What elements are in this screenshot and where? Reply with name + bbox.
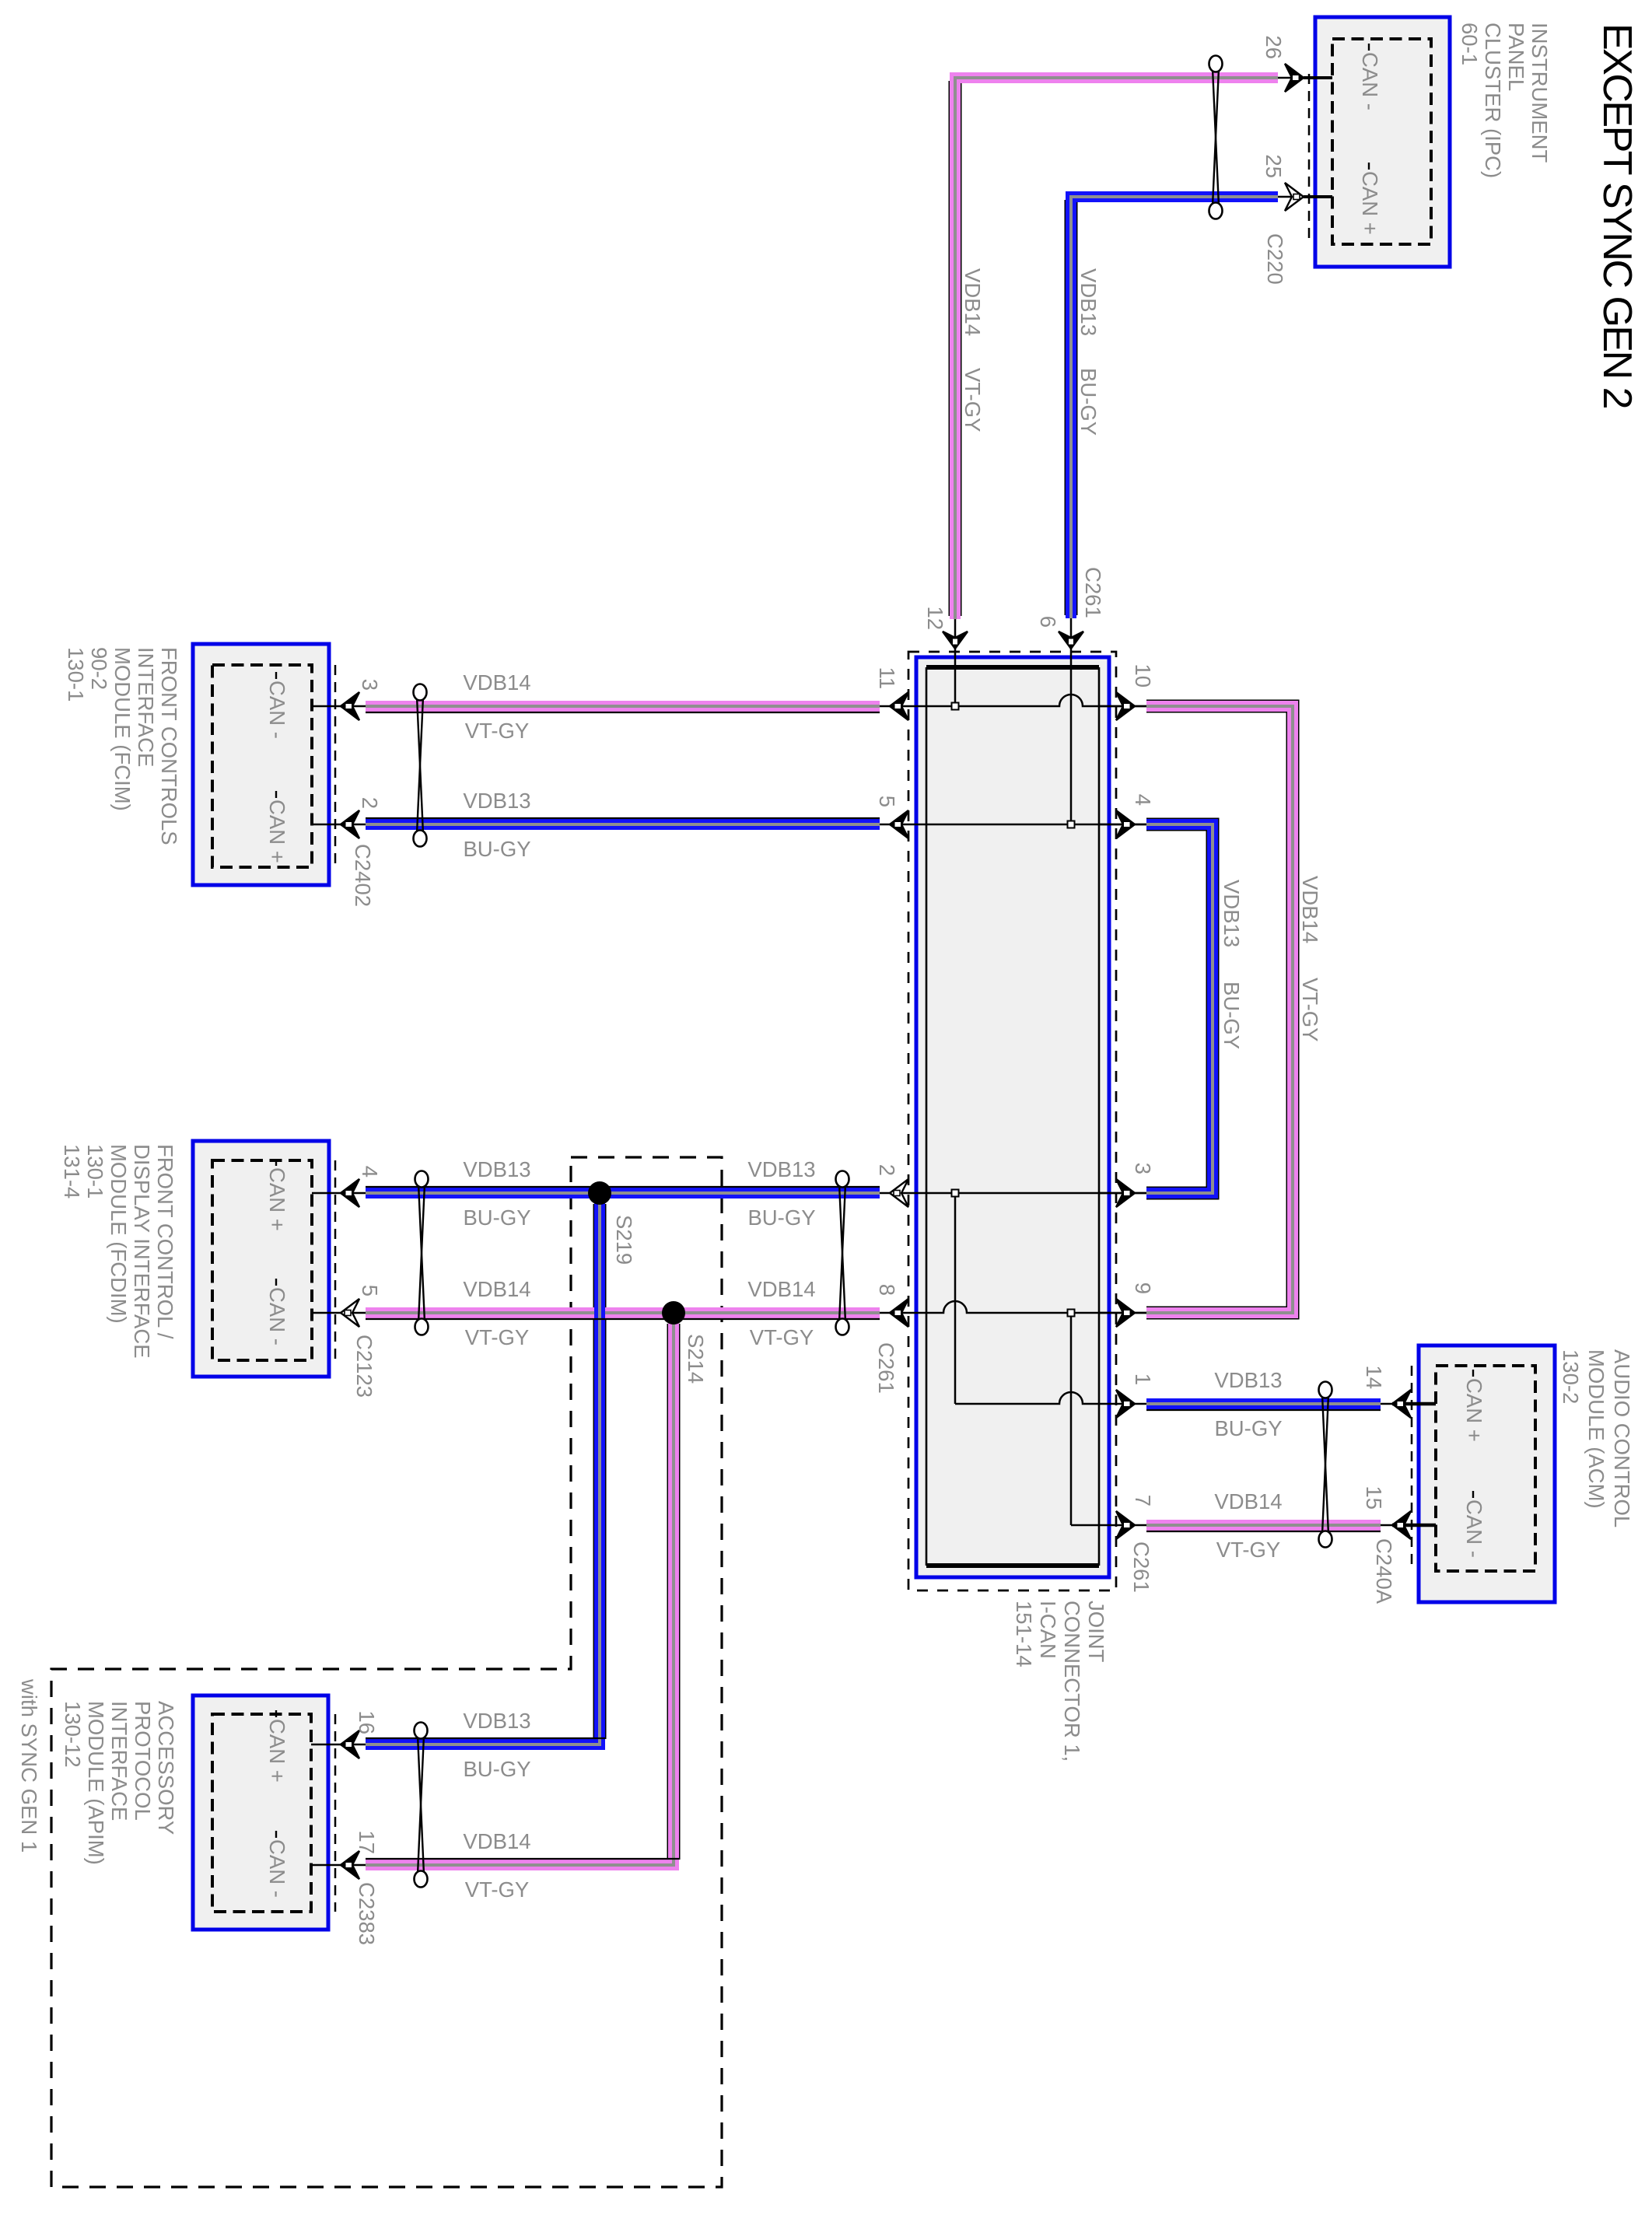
svg-text:1: 1 <box>1131 1373 1155 1385</box>
svg-text:VT-GY: VT-GY <box>465 1877 530 1902</box>
svg-text:VT-GY: VT-GY <box>465 719 530 743</box>
svg-text:FRONT CONTROL /: FRONT CONTROL / <box>153 1144 177 1339</box>
svg-text:3: 3 <box>358 679 382 691</box>
svg-text:VDB13: VDB13 <box>1220 880 1244 947</box>
svg-text:3: 3 <box>1131 1163 1155 1174</box>
svg-text:EXCEPT SYNC GEN 2: EXCEPT SYNC GEN 2 <box>1594 23 1640 408</box>
svg-text:INSTRUMENT: INSTRUMENT <box>1528 23 1552 163</box>
svg-text:6: 6 <box>1036 616 1060 628</box>
svg-text:130-12: 130-12 <box>61 1701 85 1768</box>
svg-text:DISPLAY INTERFACE: DISPLAY INTERFACE <box>130 1144 154 1359</box>
svg-text:131-4: 131-4 <box>60 1144 84 1198</box>
svg-text:VDB14: VDB14 <box>961 268 985 336</box>
svg-text:C261: C261 <box>1129 1541 1153 1593</box>
svg-text:VT-GY: VT-GY <box>465 1325 530 1349</box>
svg-text:14: 14 <box>1362 1365 1386 1389</box>
svg-text:BU-GY: BU-GY <box>463 1205 530 1230</box>
svg-text:VDB13: VDB13 <box>1214 1368 1282 1392</box>
svg-text:7: 7 <box>1131 1495 1155 1506</box>
svg-text:8: 8 <box>875 1284 899 1296</box>
svg-text:INTERFACE: INTERFACE <box>134 647 158 767</box>
svg-text:CAN +: CAN + <box>1358 171 1382 235</box>
svg-text:VDB13: VDB13 <box>463 1157 530 1181</box>
svg-text:CAN +: CAN + <box>265 800 289 863</box>
svg-text:VT-GY: VT-GY <box>1216 1538 1281 1562</box>
svg-text:CAN -: CAN - <box>265 1287 289 1345</box>
svg-text:INTERFACE: INTERFACE <box>107 1701 131 1821</box>
svg-text:CLUSTER (IPC): CLUSTER (IPC) <box>1481 23 1505 178</box>
svg-text:BU-GY: BU-GY <box>463 837 530 861</box>
svg-text:VT-GY: VT-GY <box>1298 978 1322 1042</box>
svg-text:VDB14: VDB14 <box>1214 1489 1282 1513</box>
svg-text:BU-GY: BU-GY <box>747 1205 815 1230</box>
svg-text:BU-GY: BU-GY <box>463 1757 530 1781</box>
svg-text:VT-GY: VT-GY <box>961 368 985 432</box>
svg-text:VDB14: VDB14 <box>747 1277 815 1301</box>
svg-text:PROTOCOL: PROTOCOL <box>131 1701 155 1821</box>
svg-text:CAN -: CAN - <box>1462 1499 1486 1558</box>
svg-text:11: 11 <box>875 667 899 689</box>
svg-text:ACCESSORY: ACCESSORY <box>154 1701 178 1835</box>
svg-text:26: 26 <box>1262 35 1286 59</box>
svg-text:C240A: C240A <box>1372 1538 1396 1604</box>
svg-text:60-1: 60-1 <box>1458 23 1482 65</box>
svg-text:I-CAN: I-CAN <box>1036 1601 1060 1659</box>
svg-text:VT-GY: VT-GY <box>750 1325 814 1349</box>
svg-text:VDB14: VDB14 <box>463 1829 530 1853</box>
svg-text:130-1: 130-1 <box>83 1144 107 1198</box>
svg-text:C2123: C2123 <box>352 1335 376 1398</box>
svg-text:15: 15 <box>1362 1485 1386 1510</box>
svg-text:S219: S219 <box>612 1215 636 1265</box>
svg-text:C2402: C2402 <box>351 844 375 907</box>
svg-text:CONNECTOR 1,: CONNECTOR 1, <box>1060 1601 1084 1762</box>
svg-text:MODULE (ACM): MODULE (ACM) <box>1584 1349 1608 1509</box>
svg-text:VDB13: VDB13 <box>463 789 530 813</box>
svg-text:151-14: 151-14 <box>1012 1601 1036 1667</box>
svg-text:10: 10 <box>1131 663 1155 688</box>
svg-text:JOINT: JOINT <box>1084 1601 1108 1663</box>
svg-text:VDB14: VDB14 <box>1298 876 1322 943</box>
svg-text:16: 16 <box>355 1710 379 1734</box>
svg-text:AUDIO CONTROL: AUDIO CONTROL <box>1610 1349 1634 1527</box>
svg-text:BU-GY: BU-GY <box>1076 368 1101 436</box>
svg-text:PANEL: PANEL <box>1504 23 1528 91</box>
svg-text:17: 17 <box>355 1830 379 1854</box>
svg-text:C261: C261 <box>1081 567 1105 618</box>
svg-text:MODULE (APIM): MODULE (APIM) <box>84 1701 108 1865</box>
svg-text:MODULE (FCIM): MODULE (FCIM) <box>110 647 135 811</box>
svg-text:25: 25 <box>1262 154 1286 178</box>
svg-text:VDB13: VDB13 <box>463 1709 530 1733</box>
svg-text:5: 5 <box>358 1285 382 1296</box>
svg-text:VDB14: VDB14 <box>463 670 530 695</box>
svg-text:C220: C220 <box>1263 233 1287 285</box>
svg-text:C261: C261 <box>874 1342 898 1394</box>
svg-text:VDB14: VDB14 <box>463 1277 530 1301</box>
svg-text:FRONT CONTROLS: FRONT CONTROLS <box>157 647 181 845</box>
svg-text:CAN -: CAN - <box>265 681 289 739</box>
svg-text:2: 2 <box>358 797 382 809</box>
svg-text:CAN -: CAN - <box>265 1839 289 1898</box>
svg-text:4: 4 <box>1131 794 1155 806</box>
svg-text:2: 2 <box>875 1164 899 1176</box>
svg-text:90-2: 90-2 <box>87 647 111 690</box>
svg-text:CAN +: CAN + <box>265 1719 289 1783</box>
svg-text:VDB13: VDB13 <box>1076 268 1101 336</box>
svg-text:CAN +: CAN + <box>265 1167 289 1231</box>
svg-text:MODULE (FCDIM): MODULE (FCDIM) <box>107 1144 131 1324</box>
svg-text:S214: S214 <box>684 1334 708 1384</box>
svg-text:130-2: 130-2 <box>1559 1349 1583 1404</box>
svg-text:BU-GY: BU-GY <box>1214 1416 1282 1440</box>
svg-text:4: 4 <box>358 1166 382 1177</box>
svg-text:CAN -: CAN - <box>1358 52 1382 110</box>
svg-text:BU-GY: BU-GY <box>1220 982 1244 1049</box>
svg-text:VDB13: VDB13 <box>747 1157 815 1181</box>
svg-text:CAN +: CAN + <box>1462 1378 1486 1442</box>
svg-text:9: 9 <box>1131 1282 1155 1294</box>
svg-text:12: 12 <box>923 606 947 630</box>
svg-text:with SYNC GEN 1: with SYNC GEN 1 <box>17 1678 41 1853</box>
svg-text:C2383: C2383 <box>355 1882 379 1945</box>
svg-text:5: 5 <box>875 796 899 807</box>
svg-text:130-1: 130-1 <box>64 647 88 702</box>
